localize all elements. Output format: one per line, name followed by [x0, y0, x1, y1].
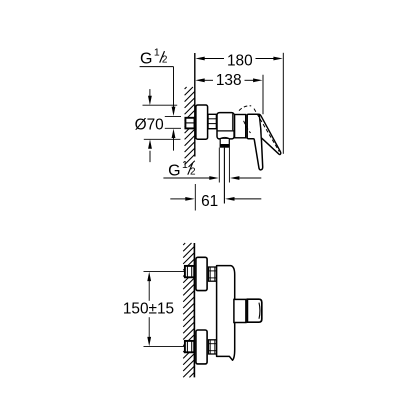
dimension 138 — [204, 75, 263, 114]
svg-text:G: G — [168, 163, 180, 180]
outlet thread extension lines and centerline — [219, 148, 229, 183]
escutcheon flange (upper view) — [196, 105, 208, 139]
svg-text:1: 1 — [154, 47, 160, 59]
hex nut behind wall (upper view) — [185, 118, 194, 129]
outlet thread arrows — [163, 177, 209, 179]
svg-text:138: 138 — [216, 72, 242, 89]
wall hatching (upper view) — [185, 87, 195, 167]
svg-text:2: 2 — [190, 167, 196, 178]
mixer body (upper view) — [217, 113, 234, 139]
svg-text:Ø70: Ø70 — [135, 116, 164, 133]
lever blade — [259, 114, 281, 154]
wall hatching (lower view) — [183, 243, 194, 377]
dimension Ø70 (escutcheon) — [143, 89, 181, 162]
escutcheon bottom (lower view) — [196, 330, 207, 364]
leader line from G 1/2 label — [140, 67, 174, 151]
outlet thread collar (dark) — [220, 145, 230, 148]
svg-text:2: 2 — [162, 55, 168, 66]
hex nut bottom (lower view) — [185, 341, 194, 352]
svg-text:1: 1 — [182, 159, 188, 171]
dimension 150±15 — [144, 271, 185, 346]
svg-text:G: G — [140, 50, 152, 67]
lever handle block and grip — [247, 114, 263, 170]
wall face line (upper view) — [194, 53, 196, 157]
cartridge housing (upper view) — [235, 115, 246, 138]
shower outlet neck (upper view) — [220, 139, 229, 145]
outlet connector (lower view) — [234, 299, 246, 322]
union nut (upper view) — [208, 114, 216, 128]
dimension 180 — [204, 53, 283, 154]
svg-text:61: 61 — [201, 193, 218, 210]
svg-text:150±15: 150±15 — [123, 301, 174, 318]
wall face line (lower view) — [193, 243, 195, 377]
dimension 61 — [194, 184, 196, 211]
lever raised position (dashed) — [239, 106, 279, 152]
outlet cap (lower view) — [247, 299, 261, 322]
escutcheon top (lower view) — [196, 257, 207, 290]
union nut extension lines — [165, 116, 181, 128]
mixer body (lower view) — [217, 266, 235, 361]
hex nut top (lower view) — [185, 266, 194, 277]
svg-text:180: 180 — [227, 52, 253, 69]
union nut bottom (lower view) — [209, 340, 217, 354]
union nut top (lower view) — [209, 267, 217, 281]
